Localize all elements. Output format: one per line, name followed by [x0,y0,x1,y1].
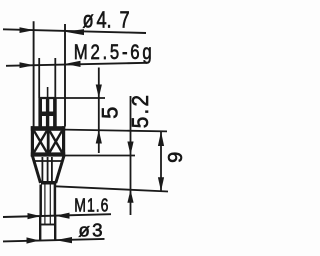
arrow left M1.6 [28,213,41,219]
svg-text:5.2: 5.2 [127,93,153,129]
svg-text:M1.6: M1.6 [74,195,109,216]
extension line collar bottom right [63,155,135,157]
svg-text:M2.5-6g: M2.5-6g [74,41,155,64]
collar top bar [31,126,65,131]
extension line thread end [56,186,169,191]
collar bottom bar [31,152,65,156]
neck below stud [45,216,50,225]
arrow down tip at stem top [96,85,102,98]
svg-text:ø3: ø3 [78,220,104,241]
extension line collar left [33,21,35,126]
stem center thread stripe [46,98,49,127]
dimension line M2.5-6g [6,63,147,66]
cone right edge [56,155,64,183]
dimension line Ø4.7 [3,29,146,33]
arrow down tip collar bottom [127,142,133,156]
stud thread core lines [45,185,50,217]
cone bottom bar [41,181,56,185]
disc top line [41,224,55,226]
arrow up tip at collar top [96,130,102,144]
dimension 5.2 vertical line [130,96,132,215]
arrow up tip collar top [158,132,164,147]
extension line stem right [54,58,56,98]
arrow right Ø3 [56,237,73,243]
extension line collar right [64,24,66,127]
collar hatch right cell [50,131,62,153]
extension line stem top [56,97,105,99]
dimension 5 vertical line [98,68,100,154]
extension line collar top right [65,130,167,132]
collar right wall [62,126,65,156]
svg-text:9: 9 [165,152,187,163]
arrow up tip thread end [127,190,133,203]
dimension line Ø3 [3,239,105,242]
disc walls [39,216,41,240]
arrow right M2.5-6g [65,61,81,67]
extension line stem left [38,58,40,98]
arrow down tip thread end [158,177,164,191]
arrow right M1.6 [55,213,70,219]
arrow left M2.5-6g [20,62,35,68]
svg-text:ø4.7: ø4.7 [83,7,130,33]
collar hatch left cell [34,131,47,153]
dimension 9 vertical line [160,131,162,191]
svg-text:5: 5 [98,107,123,119]
cone inner horizontal [34,160,62,162]
cone inner verticals [42,157,52,182]
stem M2.5 body [38,98,42,127]
collar left wall [31,126,34,156]
cone left edge [32,155,40,183]
arrow right Ø4.7 [65,29,84,35]
dimension line M1.6 [3,214,111,217]
collar divider [47,130,50,153]
arrow left Ø3 [27,237,40,243]
centerline stub above stem [47,87,49,98]
arrow left Ø4.7 [20,27,35,33]
stud M1.6 walls [39,185,42,217]
stem crossbar [39,112,56,117]
